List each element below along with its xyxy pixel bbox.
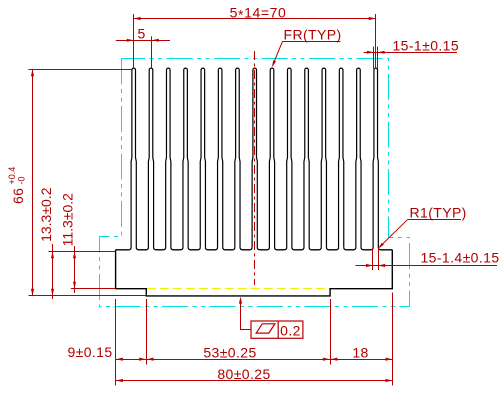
dimension 13.3±0.2 (base total thickness)	[52, 244, 54, 299]
svg-text:-0: -0	[17, 176, 27, 184]
fin 10	[287, 68, 292, 247]
machined base datum line (yellow dashed)	[147, 288, 330, 290]
svg-text:13.3±0.2: 13.3±0.2	[38, 187, 54, 242]
fin 3	[166, 68, 171, 247]
svg-text:FR(TYP): FR(TYP)	[284, 27, 342, 43]
fin 2	[148, 68, 153, 247]
svg-text:5*14=70: 5*14=70	[230, 5, 287, 23]
fin 7	[235, 68, 240, 247]
svg-text:0.2: 0.2	[280, 322, 301, 338]
svg-text:9±0.15: 9±0.15	[67, 344, 112, 360]
heatsink base outline	[116, 250, 393, 296]
svg-text:11.3±0.2: 11.3±0.2	[59, 193, 75, 247]
fin 13	[339, 68, 344, 247]
dimension 5 (fin pitch)	[116, 40, 170, 42]
vertical centerline (red dash-dot)	[254, 51, 256, 285]
svg-text:15-1±0.15: 15-1±0.15	[393, 38, 460, 54]
svg-text:5: 5	[138, 25, 146, 41]
fin 14	[356, 68, 361, 247]
dimension 15-1±0.15 (fin tip thickness)	[364, 52, 458, 54]
raw extrusion profile outline (cyan phantom line)	[100, 59, 410, 307]
dimension 80±0.25 (overall width)	[116, 380, 393, 382]
dimension 11.3±0.2 (base ledge thickness)	[74, 246, 76, 293]
flatness tolerance 0.2 callout	[251, 321, 303, 338]
svg-text:+0.4: +0.4	[7, 167, 17, 185]
bottom extension lines	[115, 299, 117, 386]
fin 12	[321, 68, 326, 247]
svg-text:53±0.25: 53±0.25	[203, 344, 256, 360]
dimension 18 (right ledge width)	[330, 359, 393, 361]
dimension 5*14=70 (fin pitch overall)	[134, 18, 376, 20]
svg-text:15-1.4±0.15: 15-1.4±0.15	[421, 249, 500, 265]
fin 11	[304, 68, 309, 247]
dimension 9±0.15 (left ledge width)	[116, 359, 147, 361]
fin 4	[183, 68, 188, 247]
dimension 15-1.4±0.15 (fin root thickness)	[356, 265, 498, 267]
fin 8	[252, 68, 257, 247]
svg-text:80±0.25: 80±0.25	[217, 366, 270, 382]
dimension 66 +0.4/-0 (overall height)	[32, 69, 34, 295]
fin 6	[218, 68, 223, 247]
fin 9	[269, 68, 274, 247]
fin root line with R1 fillets	[116, 247, 393, 250]
svg-text:66: 66	[10, 188, 26, 204]
fin 5	[200, 68, 205, 247]
svg-text:18: 18	[352, 345, 368, 361]
dimension 53±0.25 (center section width)	[146, 359, 330, 361]
svg-text:R1(TYP): R1(TYP)	[410, 204, 467, 220]
fin 1	[131, 68, 136, 247]
fin 15	[373, 68, 378, 247]
